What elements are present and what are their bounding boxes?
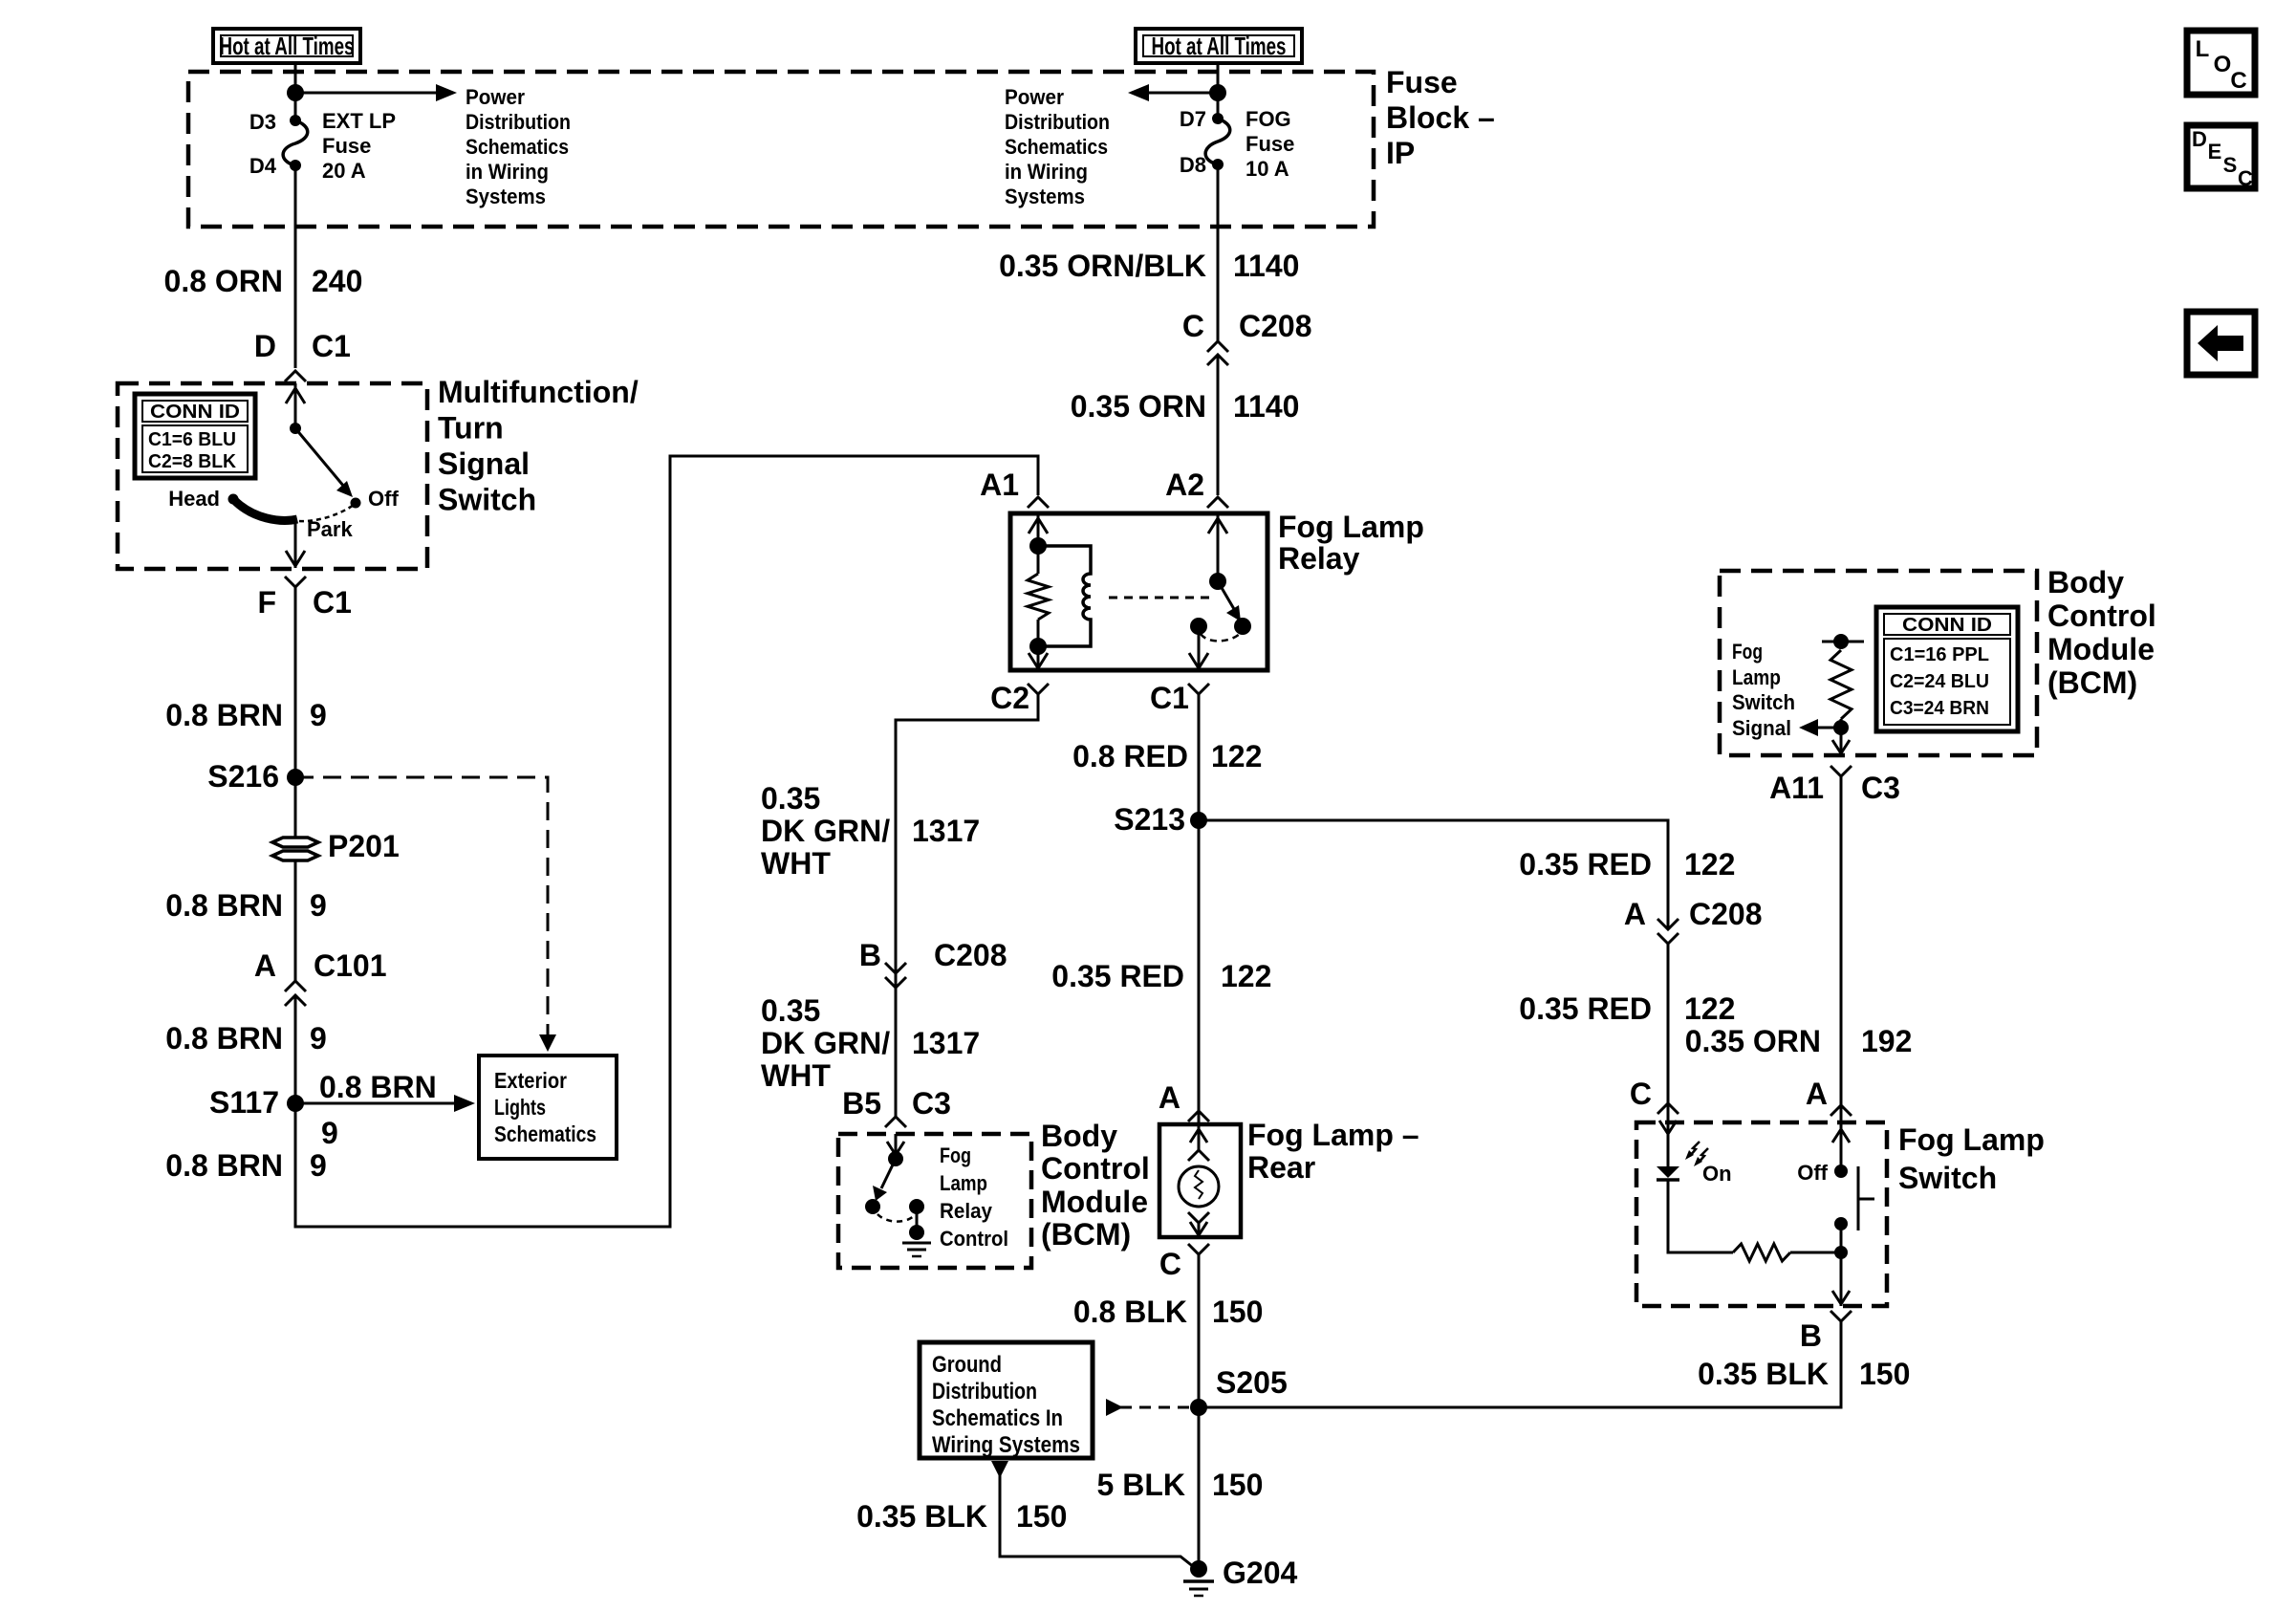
svg-text:0.8 RED: 0.8 RED (1072, 739, 1188, 773)
svg-text:C: C (1630, 1077, 1652, 1111)
multifunction/turn signal switch dashed outline (118, 383, 427, 569)
label: Power Distribution Schematics in Wiring Systems (right) (1005, 85, 1110, 208)
icon: LOC button (2187, 31, 2255, 95)
svg-text:C1: C1 (1150, 681, 1189, 715)
svg-text:Control: Control (940, 1227, 1008, 1251)
svg-text:FOG: FOG (1245, 107, 1291, 131)
svg-text:S213: S213 (1114, 802, 1185, 837)
svg-text:Schematics: Schematics (1005, 135, 1108, 159)
label: 5 BLK 150 (1097, 1468, 1264, 1502)
label: Fog Lamp Relay (1278, 510, 1424, 576)
splice S117 (287, 1095, 304, 1112)
svg-text:150: 150 (1016, 1499, 1067, 1534)
wire: resistor to output node (1790, 1252, 1841, 1254)
svg-text:C1=16 PPL: C1=16 PPL (1890, 644, 1989, 665)
BCM internal switch arm with arrowhead (873, 1159, 896, 1201)
svg-text:150: 150 (1859, 1357, 1910, 1391)
svg-text:A: A (1806, 1077, 1828, 1111)
switch arm (headlamp switch wiper) (295, 428, 353, 497)
svg-text:C208: C208 (934, 938, 1007, 972)
ground G204 (1183, 1560, 1214, 1596)
node: splice to power distribution (right) (1209, 84, 1226, 101)
label: 0.35 BLK 150 (switch ground) (1698, 1357, 1910, 1391)
relay resistor (1028, 574, 1049, 620)
svg-text:C: C (1182, 309, 1204, 343)
svg-text:Park: Park (307, 517, 353, 541)
svg-text:C1: C1 (313, 585, 352, 620)
label: 0.8 ORN 240 (164, 264, 363, 298)
label: 0.35 DK GRN/WHT (upper) (761, 781, 980, 881)
wire: Park contact to C1 pin F with exit arrow (286, 519, 305, 568)
svg-text:0.8 BLK: 0.8 BLK (1073, 1295, 1187, 1329)
BCM terminal B5 chevron (885, 1117, 906, 1127)
svg-text:150: 150 (1212, 1468, 1263, 1502)
svg-text:A2: A2 (1165, 468, 1204, 502)
grommet P201 (272, 838, 318, 860)
dashed arc: BCM switch throw (877, 1214, 915, 1222)
svg-text:Signal: Signal (438, 446, 530, 481)
conn id table (multifunction switch) (135, 394, 255, 478)
svg-text:On: On (1702, 1162, 1732, 1186)
fog lamp rear terminal C chevron (1188, 1244, 1209, 1254)
BCM switch node (888, 1151, 903, 1166)
switch contact: Off (upper) (1834, 1165, 1848, 1178)
relay contact (normally open side) (1234, 618, 1251, 635)
svg-text:0.35 ORN/BLK: 0.35 ORN/BLK (999, 249, 1206, 283)
svg-text:C208: C208 (1239, 309, 1312, 343)
svg-text:WHT: WHT (761, 1058, 831, 1093)
relay node: coil bottom (1029, 638, 1047, 655)
wire: 0.8 BRN 9 (C101 to S117) (294, 995, 297, 1103)
fuse block - IP dashed outline (188, 72, 1374, 227)
indicator feed wire with entry arrow (1659, 1121, 1677, 1166)
svg-text:Lights: Lights (494, 1095, 546, 1120)
label: 0.8 BRN 9 (third) (165, 1021, 327, 1056)
svg-text:DK GRN/: DK GRN/ (761, 1026, 890, 1060)
svg-text:Schematics: Schematics (494, 1121, 596, 1146)
arrow: S117 to Exterior Lights Schematics (295, 1095, 475, 1112)
svg-text:C1: C1 (312, 329, 351, 363)
svg-text:A: A (1159, 1080, 1180, 1115)
switch contact: lower (1834, 1217, 1848, 1230)
svg-text:0.35 BLK: 0.35 BLK (1698, 1357, 1829, 1391)
svg-text:Head: Head (168, 487, 220, 511)
arrow + dashed link: ground distribution to S205 (1106, 1399, 1193, 1416)
dashed wire: S216 to Exterior Lights Schematics (295, 777, 556, 1052)
dashed link: coil actuates switch (1109, 597, 1212, 599)
relay exit wire to C2 with arrow (1029, 646, 1048, 670)
relay terminal A1 chevron (1028, 497, 1049, 508)
svg-text:122: 122 (1211, 739, 1262, 773)
svg-text:S117: S117 (209, 1085, 279, 1120)
svg-text:C3: C3 (1861, 771, 1900, 805)
svg-text:IP: IP (1386, 136, 1415, 170)
body control module (relay control) dashed outline (838, 1134, 1031, 1268)
svg-text:122: 122 (1684, 847, 1735, 882)
svg-text:5 BLK: 5 BLK (1097, 1468, 1185, 1502)
svg-text:240: 240 (312, 264, 362, 298)
relay common exit wire to C1 with arrow (1189, 626, 1208, 670)
icon: DESC button (2187, 125, 2255, 190)
svg-text:C3: C3 (912, 1086, 951, 1121)
svg-text:C2: C2 (990, 681, 1029, 715)
wire: 0.8 ORN 240 from fuse D4 to C1 pin D (294, 165, 297, 368)
svg-text:Switch: Switch (438, 483, 536, 517)
svg-text:C: C (1159, 1247, 1181, 1281)
label: 0.35 ORN 192 (1685, 1024, 1913, 1058)
label: 0.8 RED 122 (1072, 739, 1262, 773)
svg-text:Off: Off (368, 487, 399, 511)
dashed arc: relay contact throw (1201, 633, 1241, 641)
svg-text:L: L (2196, 36, 2210, 62)
label: 0.35 RED 122 (below S213) (1051, 959, 1271, 993)
connector C208 double chevron (A) (1657, 919, 1679, 944)
svg-text:Control: Control (1041, 1151, 1150, 1186)
BCM node: fog lamp switch signal (1833, 720, 1849, 735)
wire: 0.35 DK GRN/WHT 1317 from relay C2 to BCM B5 (896, 694, 1038, 1117)
svg-text:9: 9 (310, 888, 327, 923)
svg-text:0.8 BRN: 0.8 BRN (165, 1148, 283, 1183)
svg-text:DK GRN/: DK GRN/ (761, 814, 890, 848)
BCM internal ground (902, 1207, 931, 1256)
relay common contact (1190, 618, 1207, 635)
svg-text:Fuse: Fuse (1386, 65, 1458, 99)
svg-text:Body: Body (1041, 1119, 1117, 1153)
wire: 0.35 RED 122 from S213 to C208 pin A (1199, 820, 1668, 927)
label: Fog Lamp Switch (1898, 1122, 2045, 1195)
label: 0.35 DK GRN/WHT (lower) (761, 993, 980, 1093)
fog lamp switch terminal A chevron (1830, 1105, 1852, 1116)
svg-text:D3: D3 (249, 110, 276, 134)
svg-text:Body: Body (2047, 565, 2124, 599)
svg-text:0.35: 0.35 (761, 781, 820, 816)
box: Ground Distribution Schematics In Wiring Systems (920, 1342, 1093, 1458)
svg-text:S216: S216 (207, 759, 279, 794)
svg-text:WHT: WHT (761, 846, 831, 881)
arrow: fog lamp switch signal (internal) (1799, 719, 1841, 736)
svg-text:C1=6 BLU: C1=6 BLU (148, 429, 236, 450)
svg-text:Lamp: Lamp (940, 1171, 987, 1195)
svg-text:(BCM): (BCM) (2047, 665, 2137, 700)
label: Fuse Block - IP (1386, 65, 1495, 170)
svg-text:(BCM): (BCM) (1041, 1217, 1131, 1252)
label: Fog Lamp - Rear (1247, 1118, 1419, 1185)
label: pin A / connector C208 (1624, 897, 1763, 931)
wire: switch feed with direction arrow (286, 383, 305, 427)
LED return wire (1668, 1180, 1733, 1252)
svg-text:0.8 ORN: 0.8 ORN (164, 264, 283, 298)
wire: 0.8 BRN 9 (S117 down, across and up to relay A1) (295, 456, 1038, 1227)
svg-text:Off: Off (1797, 1161, 1828, 1185)
wire: 0.35 BLK 150 from ground distribution to G204 (991, 1461, 1199, 1571)
svg-text:10 A: 10 A (1245, 157, 1289, 181)
thick arc: Head-to-Park contact strip (233, 499, 297, 520)
svg-text:D8: D8 (1180, 153, 1206, 177)
relay switch pivot (1209, 573, 1226, 590)
svg-text:Distribution: Distribution (932, 1379, 1037, 1404)
svg-text:O: O (2214, 52, 2232, 77)
svg-text:in Wiring: in Wiring (1005, 160, 1088, 184)
svg-text:0.8 BRN: 0.8 BRN (165, 1021, 283, 1056)
svg-text:C2=24 BLU: C2=24 BLU (1890, 671, 1989, 692)
BCM control wire with entry arrow (887, 1134, 904, 1157)
svg-text:Systems: Systems (466, 185, 546, 208)
label: 0.35 ORN 1140 (1071, 389, 1300, 424)
label: 0.8 BRN 9 (fourth) (165, 1148, 327, 1183)
svg-text:Block –: Block – (1386, 100, 1495, 135)
svg-text:1317: 1317 (912, 814, 980, 848)
svg-text:Hot at All Times: Hot at All Times (1152, 32, 1287, 60)
wire: 0.35 ORN/BLK 1140 from fuse D8 to C208 (1217, 165, 1220, 341)
svg-text:9: 9 (310, 1148, 327, 1183)
label: pin A11 / connector C3 (1769, 771, 1900, 805)
label: FOG Fuse 10 A (1245, 107, 1294, 181)
BCM switch contact (to ground) (909, 1199, 924, 1214)
relay terminal C2 chevron (1028, 684, 1049, 694)
connector C101 double chevron (285, 981, 306, 1006)
svg-text:0.35 ORN: 0.35 ORN (1071, 389, 1206, 424)
label: Multifunction/Turn Signal Switch (438, 375, 639, 517)
svg-text:P201: P201 (328, 829, 400, 863)
svg-text:Fuse: Fuse (322, 134, 371, 158)
switch pivot node (290, 423, 301, 434)
label: 0.8 BRN 9 (branch to exterior lights) (319, 1070, 437, 1150)
svg-text:Lamp: Lamp (1732, 665, 1781, 689)
svg-text:Signal: Signal (1732, 716, 1791, 740)
svg-text:Rear: Rear (1247, 1150, 1315, 1185)
svg-text:0.35 RED: 0.35 RED (1051, 959, 1184, 993)
svg-text:B: B (859, 938, 881, 972)
splice S205 (1190, 1399, 1207, 1416)
arrow: to Power Distribution Schematics (left) (295, 84, 457, 101)
svg-text:1317: 1317 (912, 1026, 980, 1060)
fog lamp switch terminal B chevron (1830, 1311, 1852, 1321)
connector C208 double chevron (B) (885, 963, 906, 988)
svg-text:S205: S205 (1216, 1365, 1288, 1400)
LED indicator (On) (1657, 1142, 1708, 1180)
switch exit wire with arrow (1832, 1252, 1850, 1306)
svg-text:A: A (254, 948, 276, 983)
label: pin A / connector C101 (254, 948, 387, 983)
svg-text:Distribution: Distribution (1005, 110, 1110, 134)
svg-text:Turn: Turn (438, 411, 504, 446)
svg-text:0.8 BRN: 0.8 BRN (165, 698, 283, 732)
label: Fog Lamp Switch Signal (1732, 640, 1795, 740)
svg-text:D4: D4 (249, 154, 277, 178)
svg-text:D: D (2192, 127, 2207, 151)
svg-text:9: 9 (310, 1021, 327, 1056)
power label box: Hot at All Times (left) (213, 29, 360, 63)
svg-text:D: D (254, 329, 276, 363)
fog lamp relay outline (1010, 513, 1267, 670)
fog lamp rear outline (1159, 1124, 1241, 1237)
svg-text:S: S (2223, 153, 2238, 177)
connector C208 double chevron (C) (1207, 341, 1228, 365)
wire: resistor top lead (1037, 546, 1040, 574)
box: Exterior Lights Schematics (479, 1056, 617, 1159)
node: splice to power distribution (left) (287, 84, 304, 101)
conn id table (BCM) (1876, 607, 2018, 731)
body control module (fog lamp switch signal) dashed outline (1720, 571, 2037, 755)
svg-text:0.35 BLK: 0.35 BLK (856, 1499, 987, 1534)
svg-text:A: A (1624, 897, 1646, 931)
svg-text:C: C (2230, 68, 2246, 94)
relay node: coil top (1029, 537, 1047, 555)
label: Body Control Module (BCM) (right) (2047, 565, 2156, 700)
svg-text:Multifunction/: Multifunction/ (438, 375, 639, 409)
svg-text:C2=8 BLK: C2=8 BLK (148, 451, 237, 472)
fog lamp rear internals (1179, 1124, 1219, 1237)
svg-text:C: C (2238, 166, 2253, 190)
fog lamp switch resistor (1733, 1244, 1790, 1261)
svg-text:Fog: Fog (1732, 640, 1763, 664)
wire: 0.35 RED 122 from C208 to fog lamp switch C (1667, 944, 1670, 1122)
switch output node (1834, 1246, 1848, 1259)
arrow: to Power Distribution Schematics (right) (1128, 84, 1218, 101)
connector C1 chevron (into multifunction switch) (285, 371, 306, 381)
svg-text:Power: Power (1005, 85, 1064, 109)
svg-text:150: 150 (1212, 1295, 1263, 1329)
BCM terminal A11 chevron (1830, 766, 1852, 776)
BCM switch contact (open) (865, 1199, 880, 1214)
svg-text:Hot at All Times: Hot at All Times (220, 32, 355, 60)
fog lamp rear terminal A chevron (1188, 1111, 1209, 1121)
relay terminal C1 chevron (1188, 684, 1209, 694)
svg-text:CONN ID: CONN ID (1902, 615, 1992, 636)
svg-text:Control: Control (2047, 599, 2156, 633)
label: pin F / connector C1 (257, 585, 351, 620)
svg-text:Fog Lamp: Fog Lamp (1898, 1122, 2045, 1157)
svg-text:122: 122 (1221, 959, 1271, 993)
svg-text:Ground: Ground (932, 1352, 1002, 1378)
fog lamp switch terminal C chevron (1657, 1103, 1679, 1114)
svg-text:B5: B5 (842, 1086, 881, 1121)
svg-text:9: 9 (310, 698, 327, 732)
svg-text:1140: 1140 (1233, 249, 1299, 283)
relay coil branch wire with entry arrow (1029, 513, 1048, 546)
wire: resistor to signal node (1840, 719, 1843, 728)
svg-text:0.8 BRN: 0.8 BRN (319, 1070, 437, 1104)
svg-text:B: B (1800, 1318, 1822, 1353)
wire: battery feed to EXT LP fuse (294, 63, 297, 120)
icon: back arrow button (2187, 312, 2255, 375)
svg-text:Systems: Systems (1005, 185, 1085, 208)
svg-text:A1: A1 (980, 468, 1019, 502)
svg-text:Fog Lamp: Fog Lamp (1278, 510, 1424, 544)
svg-text:G204: G204 (1223, 1556, 1297, 1590)
svg-text:D7: D7 (1180, 107, 1206, 131)
wire: switch lower contact to node (1840, 1224, 1843, 1252)
fog lamp switch dashed outline (1636, 1122, 1887, 1306)
BCM pull-up resistor (1830, 650, 1852, 719)
label: Fog Lamp Relay Control (940, 1143, 1008, 1251)
wire: battery feed to FOG fuse (1217, 63, 1220, 119)
label: 0.8 BRN 9 (second) (165, 888, 327, 923)
svg-text:1140: 1140 (1233, 389, 1299, 424)
svg-text:0.35 ORN: 0.35 ORN (1685, 1024, 1821, 1058)
label: 0.35 RED 122 (upper right) (1519, 847, 1735, 882)
push button actuator (1858, 1166, 1874, 1230)
BCM pull-up stub (1822, 641, 1864, 643)
svg-text:C101: C101 (314, 948, 387, 983)
svg-text:EXT LP: EXT LP (322, 109, 396, 133)
connector C1 chevron (below multifunction switch) (285, 577, 306, 587)
svg-text:in Wiring: in Wiring (466, 160, 549, 184)
svg-text:0.35 RED: 0.35 RED (1519, 991, 1652, 1026)
svg-text:Power: Power (466, 85, 525, 109)
svg-text:Fog Lamp –: Fog Lamp – (1247, 1118, 1419, 1152)
label: 0.35 BLK 150 (ground branch) (856, 1499, 1067, 1534)
label: 0.8 BLK 150 (1073, 1295, 1264, 1329)
svg-text:192: 192 (1861, 1024, 1912, 1058)
BCM signal exit wire with arrow (1832, 728, 1850, 755)
svg-text:E: E (2208, 140, 2222, 163)
wire: 0.35 BLK 150 from switch B to S205 (1199, 1321, 1841, 1407)
svg-text:9: 9 (321, 1116, 338, 1150)
power label box: Hot at All Times (right) (1136, 29, 1302, 63)
wire: 0.8 RED 122 from relay C1 to fog lamp rear (1198, 694, 1201, 1122)
switch feed wire with entry arrow (1832, 1122, 1850, 1171)
svg-text:122: 122 (1684, 991, 1735, 1026)
BCM node: pull-up top (1833, 634, 1849, 649)
relay switch feed from A2 with entry arrow (1208, 513, 1227, 581)
svg-text:Wiring Systems: Wiring Systems (932, 1432, 1080, 1458)
svg-text:Fuse: Fuse (1245, 132, 1294, 156)
svg-text:Switch: Switch (1898, 1161, 1997, 1195)
wire: resistor bottom lead (1037, 620, 1040, 646)
dashed arc: Park to Off (299, 505, 354, 521)
relay switch arm with arrowhead (1218, 581, 1241, 621)
svg-text:Relay: Relay (940, 1199, 993, 1223)
wire: 0.8 BRN 9 (F to S216) (294, 587, 297, 777)
contact: Off (351, 498, 361, 509)
label: pin C / connector C208 (1182, 309, 1312, 343)
svg-text:F: F (257, 585, 276, 620)
svg-text:A11: A11 (1769, 771, 1824, 805)
label: pin B / connector C208 (859, 938, 1007, 972)
wire: 0.8 BRN 9 (P201 to C101) (294, 860, 297, 981)
svg-text:0.35 RED: 0.35 RED (1519, 847, 1652, 882)
label: Power Distribution Schematics in Wiring Systems (left) (466, 85, 571, 208)
wire: S216 to grommet P201 (294, 777, 297, 838)
wire: 0.35 ORN 192 from BCM A11 to fog lamp switch A (1840, 776, 1843, 1122)
label: 0.35 ORN/BLK 1140 (999, 249, 1299, 283)
label: pin B5 / connector C3 (842, 1086, 951, 1121)
svg-text:C3=24 BRN: C3=24 BRN (1890, 698, 1989, 719)
fuse: EXT LP Fuse 20 A (terminals D3/D4) (283, 115, 308, 171)
svg-text:20 A: 20 A (322, 159, 366, 183)
relay terminal A2 chevron (1207, 497, 1228, 508)
label: Body Control Module (BCM) (left) (1041, 1119, 1150, 1252)
label: EXT LP Fuse 20 A (322, 109, 396, 183)
svg-text:Module: Module (2047, 632, 2155, 666)
svg-text:Switch: Switch (1732, 690, 1795, 714)
splice S216 (287, 769, 304, 786)
svg-text:Module: Module (1041, 1185, 1148, 1219)
fuse: FOG Fuse 10 A (terminals D7/D8) (1205, 113, 1230, 170)
svg-text:Relay: Relay (1278, 541, 1360, 576)
svg-text:Distribution: Distribution (466, 110, 571, 134)
svg-text:Schematics In: Schematics In (932, 1405, 1063, 1431)
wire: 0.8 BLK 150 fog lamp rear to ground (1198, 1254, 1201, 1569)
svg-text:Fog: Fog (940, 1143, 971, 1167)
svg-text:0.35: 0.35 (761, 993, 820, 1028)
label: pin D / connector C1 (254, 329, 351, 363)
svg-text:0.8 BRN: 0.8 BRN (165, 888, 283, 923)
svg-text:C208: C208 (1689, 897, 1763, 931)
svg-text:Exterior: Exterior (494, 1068, 567, 1093)
relay coil (1038, 546, 1091, 646)
